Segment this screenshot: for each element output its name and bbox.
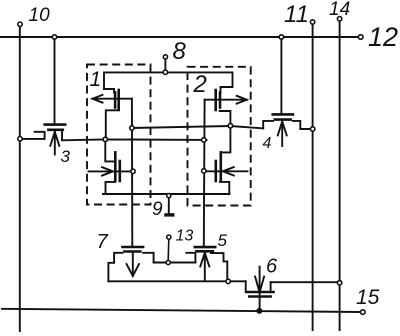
- svg-text:13: 13: [176, 228, 194, 245]
- svg-text:12: 12: [368, 22, 398, 52]
- svg-text:10: 10: [29, 5, 51, 26]
- svg-text:14: 14: [329, 0, 350, 20]
- svg-text:6: 6: [266, 256, 278, 278]
- svg-text:1: 1: [90, 68, 102, 91]
- svg-text:11: 11: [284, 1, 309, 28]
- svg-text:4: 4: [263, 135, 272, 152]
- svg-text:9: 9: [152, 199, 163, 220]
- svg-text:8: 8: [173, 38, 187, 65]
- svg-text:2: 2: [193, 71, 207, 98]
- svg-text:15: 15: [356, 286, 380, 309]
- svg-text:5: 5: [218, 231, 228, 250]
- svg-text:7: 7: [97, 231, 109, 253]
- svg-text:3: 3: [61, 147, 71, 166]
